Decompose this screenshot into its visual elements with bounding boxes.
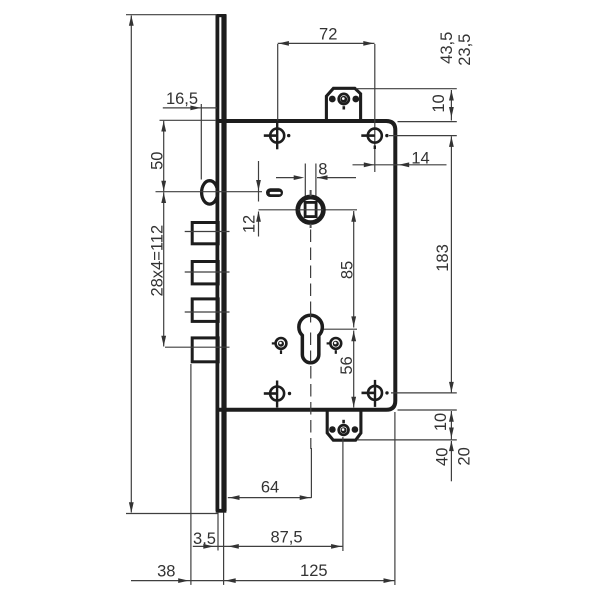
latch protrusion oval: [202, 181, 218, 204]
bottom bracket right rivet: [352, 426, 359, 433]
wire: top screws centerline extension right: [389, 135, 457, 137]
wire: dim 12 vertical leader: [258, 161, 260, 202]
wire: dim 28x4=112 vertical: [163, 192, 165, 346]
wire: body bottom right extension: [398, 409, 457, 411]
wire: bracket screw extension down: [342, 437, 344, 551]
spindle square hole: [305, 202, 316, 216]
wire: faceplate right edge extension down: [223, 513, 225, 585]
wire: dim 16,5 extension down to latch: [200, 104, 202, 180]
wire: spindle centerline through square: [298, 209, 323, 211]
svg-text:43,5: 43,5: [438, 32, 456, 64]
wire: dim 3,5 / 87,5 line: [193, 545, 343, 547]
faceplate bottom cap: [216, 509, 227, 513]
wire: dim 183 vertical: [450, 136, 452, 392]
keyhole slot: [266, 188, 283, 197]
wire: spindle bottom tick: [310, 224, 312, 228]
wire: spindle horizontal centerline: [259, 209, 358, 211]
svg-text:28x4=112: 28x4=112: [148, 225, 166, 297]
cylinder fixing screw right: [330, 338, 341, 349]
top mounting bracket: [326, 88, 360, 121]
wire: cylinder horizontal centerline: [304, 328, 357, 330]
wire: cylinder keyway dashes: [310, 313, 312, 323]
wire: dim 10 bottom vertical: [450, 411, 452, 439]
svg-text:125: 125: [300, 562, 328, 580]
wire: deadbolt 2 centerline: [185, 271, 230, 273]
bottom left screw hole: [270, 387, 284, 401]
wire: bottom screws centerline extension right: [391, 392, 457, 394]
wire: deadbolt 3 centerline: [185, 311, 230, 313]
svg-text:85: 85: [339, 261, 357, 279]
deadbolt 2: [192, 262, 218, 284]
svg-text:64: 64: [261, 478, 279, 496]
top right screw hole: [368, 129, 382, 143]
svg-text:8: 8: [318, 161, 327, 179]
faceplate top cap: [216, 14, 227, 17]
wire: bracket top extension line: [356, 88, 457, 90]
wire: dim 8 line: [276, 177, 301, 179]
wire: dim 72 line: [278, 42, 375, 44]
wire: body top left extension: [160, 119, 217, 121]
svg-text:23,5: 23,5: [456, 34, 474, 66]
wire: faceplate left edge extension down: [217, 513, 219, 551]
wire: dim 72 right extension through bracket: [374, 44, 376, 172]
svg-text:183: 183: [434, 244, 452, 272]
svg-text:14: 14: [411, 149, 429, 167]
wire: dim 10 top vertical: [450, 90, 452, 121]
deadbolt 1: [192, 223, 218, 244]
wire: dim 14 line: [353, 164, 447, 166]
spindle hub ring: [298, 197, 324, 223]
wire: deadbolt 4 centerline: [165, 346, 230, 348]
wire: dim 38 / 125 line: [131, 580, 395, 582]
svg-text:40: 40: [433, 448, 451, 466]
wire: dim 64 line: [228, 497, 312, 499]
wire: left overall extension line top: [126, 14, 217, 16]
faceplate left edge: [215, 15, 219, 512]
wire: dim 40/20 leader: [450, 441, 452, 481]
wire: dim 56 vertical: [353, 331, 355, 408]
wire: vertical dash-dot centerline spindle to cylinder: [310, 230, 312, 314]
svg-text:10: 10: [432, 413, 450, 431]
wire: dim 85 vertical: [353, 211, 355, 328]
wire: latch centerline: [156, 191, 263, 193]
wire: body right edge extension down: [394, 412, 396, 585]
top bracket right rivet: [352, 96, 359, 103]
wire: bracket bottom extension: [357, 439, 457, 441]
svg-text:20: 20: [455, 447, 473, 465]
svg-text:38: 38: [157, 563, 175, 581]
wire: dim 8 left extension: [304, 164, 306, 197]
top left screw hole: [270, 129, 284, 143]
wire: dim 16,5 line: [163, 107, 217, 109]
wire: dim 72 left extension: [277, 44, 279, 121]
deadbolt 3: [192, 299, 218, 322]
wire: cylinder center extension down: [310, 448, 312, 498]
wire: body top right extension line: [398, 121, 457, 123]
euro cylinder profile: [299, 315, 323, 363]
svg-text:56: 56: [338, 356, 356, 374]
wire: left overall dimension line: [130, 16, 132, 513]
bottom bracket screw: [339, 425, 349, 435]
lock body: [219, 121, 395, 410]
bottom right screw hole: [368, 386, 382, 400]
svg-text:16,5: 16,5: [166, 90, 198, 108]
top bracket screw: [339, 94, 349, 104]
deadbolt 4: [192, 338, 218, 362]
svg-text:10: 10: [430, 94, 448, 112]
wire: dim 50 vertical: [163, 121, 165, 192]
svg-text:12: 12: [240, 215, 258, 233]
wire: vertical centerline below cylinder: [310, 366, 312, 449]
svg-text:3,5: 3,5: [193, 530, 216, 548]
wire: dim 8 right extension: [315, 164, 317, 197]
top bracket left rivet: [329, 96, 336, 103]
svg-text:87,5: 87,5: [270, 529, 302, 547]
cylinder fixing screw left: [276, 338, 287, 349]
svg-text:72: 72: [319, 26, 337, 44]
wire: left overall extension line bottom: [126, 513, 218, 515]
faceplate right edge: [221, 15, 226, 512]
bottom bracket left rivet: [329, 426, 336, 433]
bottom mounting bracket: [327, 410, 361, 441]
wire: spindle top tick: [310, 190, 312, 196]
svg-text:50: 50: [148, 152, 166, 170]
wire: deadbolt 1 centerline: [185, 231, 230, 233]
wire: bolt face extension down: [190, 364, 192, 585]
